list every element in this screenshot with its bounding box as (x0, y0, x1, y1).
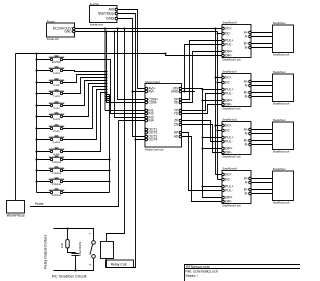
svg-text:ZD: ZD (174, 123, 179, 127)
junction dots input bus (105, 70, 107, 101)
stepmotorX pin DC- (222, 32, 231, 36)
svg-text:StepMotorY: StepMotorY (222, 70, 237, 74)
svg-text:StepMotorX.sch: StepMotorX.sch (222, 58, 241, 62)
motioncard pin OUT2 (145, 131, 157, 135)
motioncard pin ZP right (174, 119, 182, 123)
stepmotorZ pin DIR- (222, 151, 232, 155)
svg-text:A-Lim: A-Lim (53, 152, 60, 156)
motorX box (273, 25, 294, 53)
wire Z Home output (63, 181, 110, 183)
svg-text:A-: A- (245, 132, 248, 136)
junction dot GND branch (183, 90, 185, 92)
svg-text:Inverter.sch: Inverter.sch (90, 23, 104, 27)
stepmotorY pin B+ (244, 91, 251, 95)
svg-text:StepMotorA.sch: StepMotorA.sch (222, 204, 241, 208)
wire top horizontal rail (16, 53, 166, 55)
junction dots +5V distribution (201, 88, 203, 187)
svg-text:B-: B- (245, 143, 248, 147)
resistor R 10R (66, 229, 76, 253)
motioncard box (145, 84, 182, 148)
switch ESTOP (49, 56, 64, 61)
svg-text:Z+Lim: Z+Lim (53, 117, 60, 121)
wire AD to stepmotorA DIR- (182, 137, 222, 202)
stepmotorZ pin DC+ (222, 124, 232, 128)
svg-text:MotionCard: MotionCard (145, 80, 160, 84)
svg-text:Y-Lim: Y-Lim (53, 106, 60, 110)
wire X+Lim output to input bus (63, 71, 107, 72)
motioncard pin IN4 (145, 119, 154, 123)
junction dots DIR- stub (164, 52, 185, 56)
svg-text:A-: A- (245, 181, 248, 185)
wire COM+ to 24V rail (118, 29, 146, 100)
svg-text:B-: B- (245, 192, 248, 196)
switch A+Lim (49, 136, 64, 141)
stepmotorY pin PUL+ (222, 88, 234, 92)
motorZ box (273, 122, 294, 150)
svg-text:PUL-: PUL- (225, 140, 233, 144)
switch Z+Lim (49, 113, 64, 118)
svg-text:StepMotor: StepMotor (273, 118, 286, 122)
svg-text:StepMotorZ.sch: StepMotorZ.sch (222, 155, 241, 159)
wire 24V rail to stepmotorX DC+ (75, 29, 222, 175)
relay coil box (101, 242, 114, 259)
wire X-Lim output to input bus (63, 75, 107, 83)
wire XP to stepmotorX PUL+ (182, 41, 222, 100)
wire AP to stepmotorA PUL- (182, 133, 222, 191)
stepmotorA pin A+ (244, 177, 251, 181)
svg-text:Relay Coil: Relay Coil (111, 262, 127, 266)
wire home bus riser rows (107, 95, 110, 101)
stepmotorA pin DC+ (222, 173, 232, 177)
stepmotorY pin DIR- (222, 103, 232, 107)
svg-text:DC+: DC+ (225, 76, 232, 80)
svg-text:StepMotor.sch: StepMotor.sch (273, 149, 290, 153)
wire inverter Start/Stop to relay coil and OUT4 (107, 14, 146, 268)
svg-text:DC-: DC- (225, 178, 231, 182)
motioncard pin GND right (171, 90, 182, 94)
wires stepmotorX to motor (251, 33, 272, 48)
svg-text:Z Home: Z Home (52, 182, 62, 186)
stepmotorZ driver box (222, 122, 251, 155)
stepmotorZ pin PUL+ (222, 136, 234, 140)
svg-text:Y Home: Y Home (52, 171, 62, 175)
stepmotorX pin A- (245, 35, 252, 39)
wire GND rail to stepmotor DC- column (75, 32, 222, 180)
stepmotorA pin B+ (244, 188, 251, 192)
motioncard pin AD right (174, 135, 182, 139)
wire IN1 riser to 24V rail (105, 29, 145, 111)
svg-text:A+Lim: A+Lim (53, 140, 60, 144)
svg-text:StepMotor.sch: StepMotor.sch (273, 200, 290, 204)
stepmotorA pin PUL+ (222, 185, 234, 189)
junction dots 24V rail (116, 27, 216, 126)
stepmotorZ pin DIR+ (222, 147, 233, 151)
wire home bus riser (109, 95, 111, 193)
stepmotorA pin DC- (222, 178, 231, 182)
power pin GND (64, 30, 75, 34)
switch Y Home (49, 167, 64, 172)
svg-text:RFSensor.com: RFSensor.com (186, 265, 210, 269)
wire Y+Lim output to input bus (63, 78, 107, 94)
svg-text:PUL-: PUL- (225, 43, 233, 47)
svg-text:DC+: DC+ (225, 124, 232, 128)
inverter pin AVI (109, 8, 118, 12)
svg-text:DIR-: DIR- (225, 103, 232, 107)
stepmotorY pin DC- (222, 81, 231, 85)
junction dot resistor top (66, 227, 68, 229)
switch X Home (49, 156, 64, 161)
wire Y Home output (63, 170, 110, 172)
svg-text:A-: A- (245, 84, 248, 88)
svg-text:Z-Lim: Z-Lim (53, 129, 60, 133)
wire left vertical to workpiece (15, 54, 17, 201)
svg-text:DIR-: DIR- (225, 54, 232, 58)
motioncard pin XP right (174, 98, 182, 102)
svg-text:MotionCard.sch: MotionCard.sch (145, 148, 164, 152)
svg-text:OUT4: OUT4 (148, 138, 157, 142)
svg-text:Relay Output Contact: Relay Output Contact (44, 235, 48, 268)
svg-text:StepMotorX: StepMotorX (222, 21, 237, 25)
stepmotorY pin DIR+ (222, 99, 233, 103)
junction dot common bus top (35, 52, 37, 54)
junction dot inverter GND at AVI- (131, 90, 133, 92)
switch Y+Lim (49, 90, 64, 95)
svg-text:PUL-: PUL- (225, 92, 233, 96)
svg-text:B-: B- (245, 46, 248, 50)
wire +5V common distribution (182, 89, 222, 198)
stepmotorY pin DC+ (222, 76, 232, 80)
wire ZP to stepmotorZ PUL- (182, 121, 222, 142)
switch Z Home (49, 178, 64, 183)
wire 24V to relay coil top (107, 29, 125, 242)
svg-text:AVI-: AVI- (148, 90, 154, 94)
stepmotorX pin DIR+ (222, 50, 233, 54)
title block frame (185, 265, 301, 281)
wire snubber top (54, 229, 94, 241)
wire inverter GND to AVI- and OUT3 (117, 19, 145, 137)
stepmotorA pin DIR+ (222, 196, 233, 200)
junction dot start/stop at OUT4 (134, 138, 136, 140)
stepmotorX pin A+ (244, 31, 251, 35)
svg-text:COM-: COM- (148, 101, 157, 105)
power pin DC24V/12V (53, 27, 75, 31)
svg-text:XD: XD (174, 101, 179, 105)
wire A+Lim output to input bus (63, 90, 107, 140)
svg-text:X-Lim: X-Lim (53, 83, 60, 87)
stepmotorY pin PUL- (222, 92, 233, 96)
svg-text:DC+: DC+ (225, 27, 232, 31)
stepmotorA pin DIR- (222, 200, 232, 204)
switch A-Lim (49, 148, 64, 153)
wires stepmotorZ to motor (251, 130, 272, 145)
wire X Home output (63, 159, 110, 161)
wire YP to stepmotorY PUL- (182, 94, 222, 111)
stepmotorY pin A+ (244, 80, 251, 84)
motorY box (273, 74, 294, 102)
wire switch common bus (36, 54, 38, 193)
svg-text:PUL-: PUL- (225, 189, 233, 193)
motioncard pin IN3 (145, 116, 154, 120)
wire ESTOP output to IN2 (63, 60, 145, 114)
motioncard pin IN2 (145, 112, 154, 116)
wire Y-Lim output to input bus (63, 81, 107, 106)
svg-text:GND: GND (106, 17, 115, 21)
capacitor C 0.1uF/630V (72, 253, 80, 271)
motioncard pin OUT3 (145, 135, 157, 139)
svg-text:DC+: DC+ (225, 173, 232, 177)
svg-text:YD: YD (174, 112, 179, 116)
svg-text:StepMotorA: StepMotorA (222, 167, 237, 171)
svg-text:StepMotor.sch: StepMotor.sch (273, 101, 290, 105)
svg-text:StepMotor.sch: StepMotor.sch (273, 52, 290, 56)
stepmotorA pin B- (245, 192, 252, 196)
svg-text:2: 2 (88, 264, 92, 266)
svg-text:1: 1 (88, 233, 92, 235)
svg-text:A Home: A Home (52, 193, 62, 197)
junction dots on common bus (35, 58, 37, 182)
motioncard pin XD right (174, 101, 182, 105)
junction dot IN1 riser top (104, 27, 106, 29)
wire GND branch to stepmotorX PUL- DIR- (182, 45, 222, 92)
svg-text:B-: B- (245, 95, 248, 99)
svg-text:X+Lim: X+Lim (53, 71, 60, 75)
relay coil label box (106, 260, 134, 268)
switch Y-Lim (49, 102, 64, 107)
wire snubber bottom (54, 258, 94, 270)
relay contact switch (90, 241, 95, 258)
wire XD to stepmotorX DIR+ (182, 52, 222, 103)
wire input bus vertical to COM- (107, 32, 146, 103)
stepmotorZ pin B- (245, 143, 252, 147)
inverter pin GND (106, 17, 118, 21)
stepmotorZ pin DC- (222, 129, 231, 133)
svg-text:Start/Stop: Start/Stop (98, 12, 114, 16)
wire stub to stepmotorX DIR- (166, 54, 223, 56)
svg-text:GND: GND (64, 30, 72, 34)
svg-text:Inverter: Inverter (90, 2, 100, 6)
svg-text:ESTOP: ESTOP (52, 60, 61, 64)
motioncard pin +5V right (172, 87, 181, 91)
stepmotorX pin B+ (244, 42, 251, 46)
stepmotorZ pin B+ (244, 139, 251, 143)
stepmotorY pin A- (245, 84, 252, 88)
inverter U1 box (90, 6, 118, 23)
wire probe to IN4 (30, 121, 145, 207)
svg-text:10R: 10R (60, 243, 64, 248)
wire IN3 to GND rail (115, 32, 146, 118)
relay coil bottom wire (106, 259, 108, 268)
svg-text:0.1uF/630V: 0.1uF/630V (78, 242, 82, 257)
svg-text:Power: Power (47, 19, 55, 23)
switch A Home (49, 189, 64, 194)
wire YD to stepmotorY DIR- (182, 105, 222, 114)
motioncard pin IN1 (145, 109, 154, 113)
stepmotorX pin DC+ (222, 27, 232, 31)
svg-text:IN4: IN4 (148, 119, 153, 123)
junction dot capacitor bottom (74, 269, 76, 271)
motioncard pin AVI+ (145, 87, 155, 91)
stepmotorY driver box (222, 74, 251, 107)
wire A Home output (63, 192, 110, 194)
wire ZD to stepmotorZ DIR- (182, 125, 222, 153)
stepmotorX driver box (222, 25, 251, 58)
svg-text:StepMotor: StepMotor (273, 70, 286, 74)
svg-text:WorkPiece: WorkPiece (7, 213, 25, 217)
svg-text:X Home: X Home (52, 160, 62, 164)
svg-text:DC-: DC- (225, 129, 231, 133)
motioncard pin YD right (174, 112, 182, 116)
stepmotorA pin A- (245, 181, 252, 185)
svg-text:DIR-: DIR- (225, 151, 232, 155)
wire Z-Lim output to input bus (63, 87, 107, 129)
motioncard pin YP right (174, 109, 182, 113)
svg-text:StepMotor: StepMotor (273, 167, 286, 171)
svg-text:AD: AD (174, 135, 179, 139)
wires stepmotorY to motor (251, 82, 272, 97)
workpiece box (7, 201, 25, 214)
switch X+Lim (49, 67, 64, 72)
stepmotorX pin PUL+ (222, 39, 234, 43)
svg-text:Sheet: /: Sheet: / (185, 274, 197, 278)
stepmotorZ pin A+ (244, 128, 251, 132)
svg-text:StepMotor: StepMotor (273, 21, 286, 25)
svg-text:A-: A- (245, 35, 248, 39)
motioncard pin OUT4 (145, 138, 157, 142)
wire Z+Lim output to input bus (63, 84, 107, 117)
switch X-Lim (49, 79, 64, 84)
svg-text:StepMotorY.sch: StepMotorY.sch (222, 107, 241, 111)
stepmotorZ pin PUL- (222, 140, 233, 144)
stepmotorX pin B- (245, 46, 252, 50)
stepmotorZ pin A- (245, 132, 252, 136)
stepmotorA pin PUL- (222, 189, 233, 193)
stepmotorX pin DIR- (222, 54, 232, 58)
svg-text:GND: GND (171, 90, 179, 94)
svg-text:DIR-: DIR- (225, 200, 232, 204)
wires switch common feeds (37, 60, 51, 193)
motioncard pin COM- (145, 101, 157, 105)
inverter pin Start/Stop (98, 12, 118, 16)
stepmotorX pin PUL- (222, 43, 233, 47)
motioncard pin AP right (174, 131, 182, 135)
svg-text:StepMotorZ: StepMotorZ (222, 118, 237, 122)
svg-text:DC-: DC- (225, 32, 231, 36)
motioncard pin AVI- (145, 90, 155, 94)
wires stepmotorA to motor (251, 179, 272, 194)
wire A-Lim output to input bus (63, 93, 107, 152)
svg-text:Probe: Probe (35, 202, 44, 206)
svg-text:Power.sch: Power.sch (47, 37, 60, 41)
junction dots home riser (108, 95, 110, 182)
svg-text:Y+Lim: Y+Lim (53, 94, 60, 98)
motorA box (273, 171, 294, 201)
svg-text:DC-: DC- (225, 81, 231, 85)
junction dots GND rail (105, 30, 218, 131)
power supply box (47, 23, 75, 37)
switch Z-Lim (49, 125, 64, 130)
motioncard pin OUT1 (145, 128, 157, 132)
stepmotorA driver box (222, 171, 251, 204)
wire inverter AVI to motioncard AVI+ (117, 10, 145, 89)
stepmotorY pin B- (245, 95, 252, 99)
motioncard pin COM+ (145, 98, 158, 102)
motioncard pin ZD right (174, 123, 182, 127)
svg-text:RC Snubber Circuit: RC Snubber Circuit (52, 274, 87, 279)
